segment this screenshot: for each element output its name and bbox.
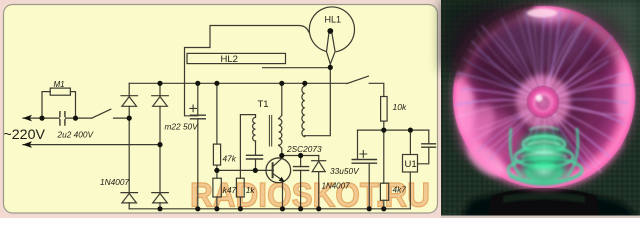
resistor R1 47k branch top	[216, 83, 218, 144]
svg-text:1k: 1k	[246, 185, 256, 195]
diode VD1 top-left	[121, 95, 138, 97]
svg-text:10k: 10k	[393, 102, 407, 112]
bottom edge strip	[441, 216, 640, 219]
rim dark crescent top-left	[459, 9, 535, 73]
top bus wire	[129, 82, 347, 84]
module U1 bottom lead	[409, 172, 411, 209]
wire HL1 lead down to winding	[305, 67, 331, 135]
diode VD5 symbol	[312, 160, 326, 162]
svg-text:2u2 400V: 2u2 400V	[57, 129, 95, 139]
capacitor C6 bottom lead to U1	[418, 147, 429, 164]
electrode dot HL1	[327, 28, 333, 34]
capacitor C1 2u2 plates	[60, 112, 65, 125]
transistor Q1 collector line	[273, 158, 282, 167]
node dot AC2	[157, 142, 162, 147]
svg-text:M1: M1	[54, 80, 65, 89]
capacitor C2 m22 plates	[191, 115, 206, 119]
switch S2 lever	[347, 76, 369, 84]
top haze	[495, 16, 587, 68]
plus sign C5	[360, 151, 367, 158]
lamp HL2 box	[187, 53, 286, 63]
filaments	[455, 10, 630, 178]
electrode glow	[516, 75, 570, 129]
svg-text:m22 50V: m22 50V	[165, 122, 200, 132]
svg-text:k47: k47	[223, 185, 237, 195]
transformer T1 primary bottom lead	[279, 145, 282, 155]
lamp HL1 legs	[327, 33, 336, 67]
capacitor C4 top lead	[300, 156, 302, 167]
capacitor C3 plates	[247, 155, 263, 159]
plus sign C2	[190, 105, 197, 112]
resistor R2 bottom lead	[216, 197, 218, 209]
bridge left vertical wire	[128, 83, 130, 209]
svg-text:HL2: HL2	[221, 54, 238, 65]
mid pink wash	[482, 37, 606, 161]
green rings	[508, 127, 582, 185]
resistor M1 branch right	[70, 92, 75, 119]
resistor R1 bottom lead	[216, 165, 218, 170]
svg-text:~220V: ~220V	[4, 127, 46, 143]
switch S1 lever	[92, 109, 111, 118]
resistor R2 k47 box	[213, 178, 221, 197]
svg-text:1N4007: 1N4007	[100, 177, 129, 187]
lamp base dark	[488, 188, 600, 218]
resistor R2 k47 top lead	[216, 170, 218, 178]
wire collector node	[282, 155, 319, 157]
svg-text:1N4007: 1N4007	[322, 182, 351, 191]
wire AC line 2	[23, 144, 160, 146]
capacitor C5 bottom lead	[368, 163, 370, 209]
capacitor C5 33u top lead	[357, 130, 359, 159]
diode VD4 bottom-right	[152, 192, 169, 194]
diode VD5 1N4007 top lead	[318, 156, 320, 161]
capacitor C4 bottom lead	[300, 170, 302, 208]
transformer T1 core	[269, 116, 271, 147]
wire right node	[358, 129, 429, 131]
transistor Q1 base bar	[272, 163, 274, 177]
transformer T1 primary winding	[279, 119, 282, 145]
wire HL1 electrode 2 path	[185, 26, 309, 116]
diode VD5 bottom lead	[318, 172, 320, 209]
wire switch to bridge	[114, 117, 130, 119]
arrow AC2	[23, 141, 32, 148]
capacitor C2 m22 bottom lead	[197, 119, 199, 209]
transformer T1 HV winding	[302, 83, 305, 136]
node dots base wire	[214, 168, 219, 173]
photo background fabric	[441, 0, 640, 218]
wire base node	[217, 169, 273, 171]
node dots top bus	[157, 81, 162, 86]
dark upper-left interior	[463, 15, 559, 95]
plasma ball sphere	[453, 6, 635, 188]
wire AC line 1	[23, 117, 92, 119]
resistor R3 bottom lead	[239, 197, 241, 209]
module U1 box	[403, 155, 418, 173]
schematic panel	[4, 5, 438, 214]
rim hot spots	[457, 84, 475, 136]
transistor Q1 emitter arrowhead	[279, 177, 285, 182]
wire winding to C3	[255, 141, 257, 155]
rim bright ring	[459, 12, 629, 182]
bright lower-left quadrant	[461, 112, 525, 164]
dark dimmer upper-left over filaments	[447, 4, 551, 88]
transformer T1 feedback winding	[253, 115, 256, 141]
resistor R5 bottom lead	[383, 200, 385, 209]
svg-text:4k7: 4k7	[393, 185, 407, 195]
diode VD2 top-right	[152, 95, 169, 97]
wire gap mask for C1	[61, 117, 64, 119]
green stem glow	[514, 126, 574, 174]
capacitor C3 bottom lead	[255, 159, 257, 170]
capacitor C2 m22 top lead	[197, 83, 199, 115]
capacitor C6 top lead	[428, 130, 430, 144]
svg-text:U1: U1	[405, 159, 417, 170]
node dots collector wire	[279, 153, 284, 158]
resistor R5 4k7 box	[380, 183, 388, 200]
resistor R1 47k box	[213, 144, 220, 165]
arrow AC1	[23, 115, 32, 122]
capacitor C4 plates	[294, 167, 309, 171]
resistor R3 1k box	[236, 178, 244, 197]
node dots right node	[381, 128, 386, 133]
module U1 top lead	[409, 130, 411, 154]
transformer T1 primary top lead	[279, 83, 282, 118]
resistor M1 box	[50, 88, 70, 95]
ball outer glow	[452, 5, 636, 189]
ball bottom rim glow	[466, 141, 622, 187]
wire S2 to 10k	[369, 83, 384, 96]
photo of plasma ball	[441, 0, 640, 218]
bridge right vertical wire	[159, 83, 161, 209]
transistor Q1 emitter lead	[282, 182, 284, 208]
glass top highlight	[527, 9, 557, 18]
resistor M1 branch left	[42, 92, 50, 119]
wire winding to 1k	[240, 115, 255, 179]
lamp HL1 circle	[309, 7, 354, 52]
node dots AC1	[39, 116, 44, 121]
transistor Q1 circle	[266, 158, 291, 183]
electrode ball	[527, 86, 560, 119]
resistor R5 4k7 top lead	[383, 130, 385, 183]
diode VD3 bottom-left	[121, 192, 138, 194]
capacitor C5 plates	[352, 160, 376, 164]
lamp base shadow	[461, 190, 640, 218]
svg-text:47k: 47k	[223, 154, 237, 164]
transistor Q1 emitter line	[273, 174, 284, 181]
node dot HL1 lead	[328, 65, 333, 70]
svg-text:HL1: HL1	[325, 15, 342, 25]
capacitor C6 plates	[422, 144, 436, 147]
node dots bottom bus	[157, 206, 162, 211]
resistor R4 10k box	[381, 97, 388, 122]
svg-text:T1: T1	[258, 99, 269, 110]
svg-text:2SC2073: 2SC2073	[286, 144, 322, 154]
bottom bus wire	[129, 208, 410, 210]
wire HL2 to HL1 lead	[263, 67, 331, 69]
svg-text:33u50V: 33u50V	[330, 166, 360, 176]
resistor R4 bottom lead	[383, 121, 385, 130]
